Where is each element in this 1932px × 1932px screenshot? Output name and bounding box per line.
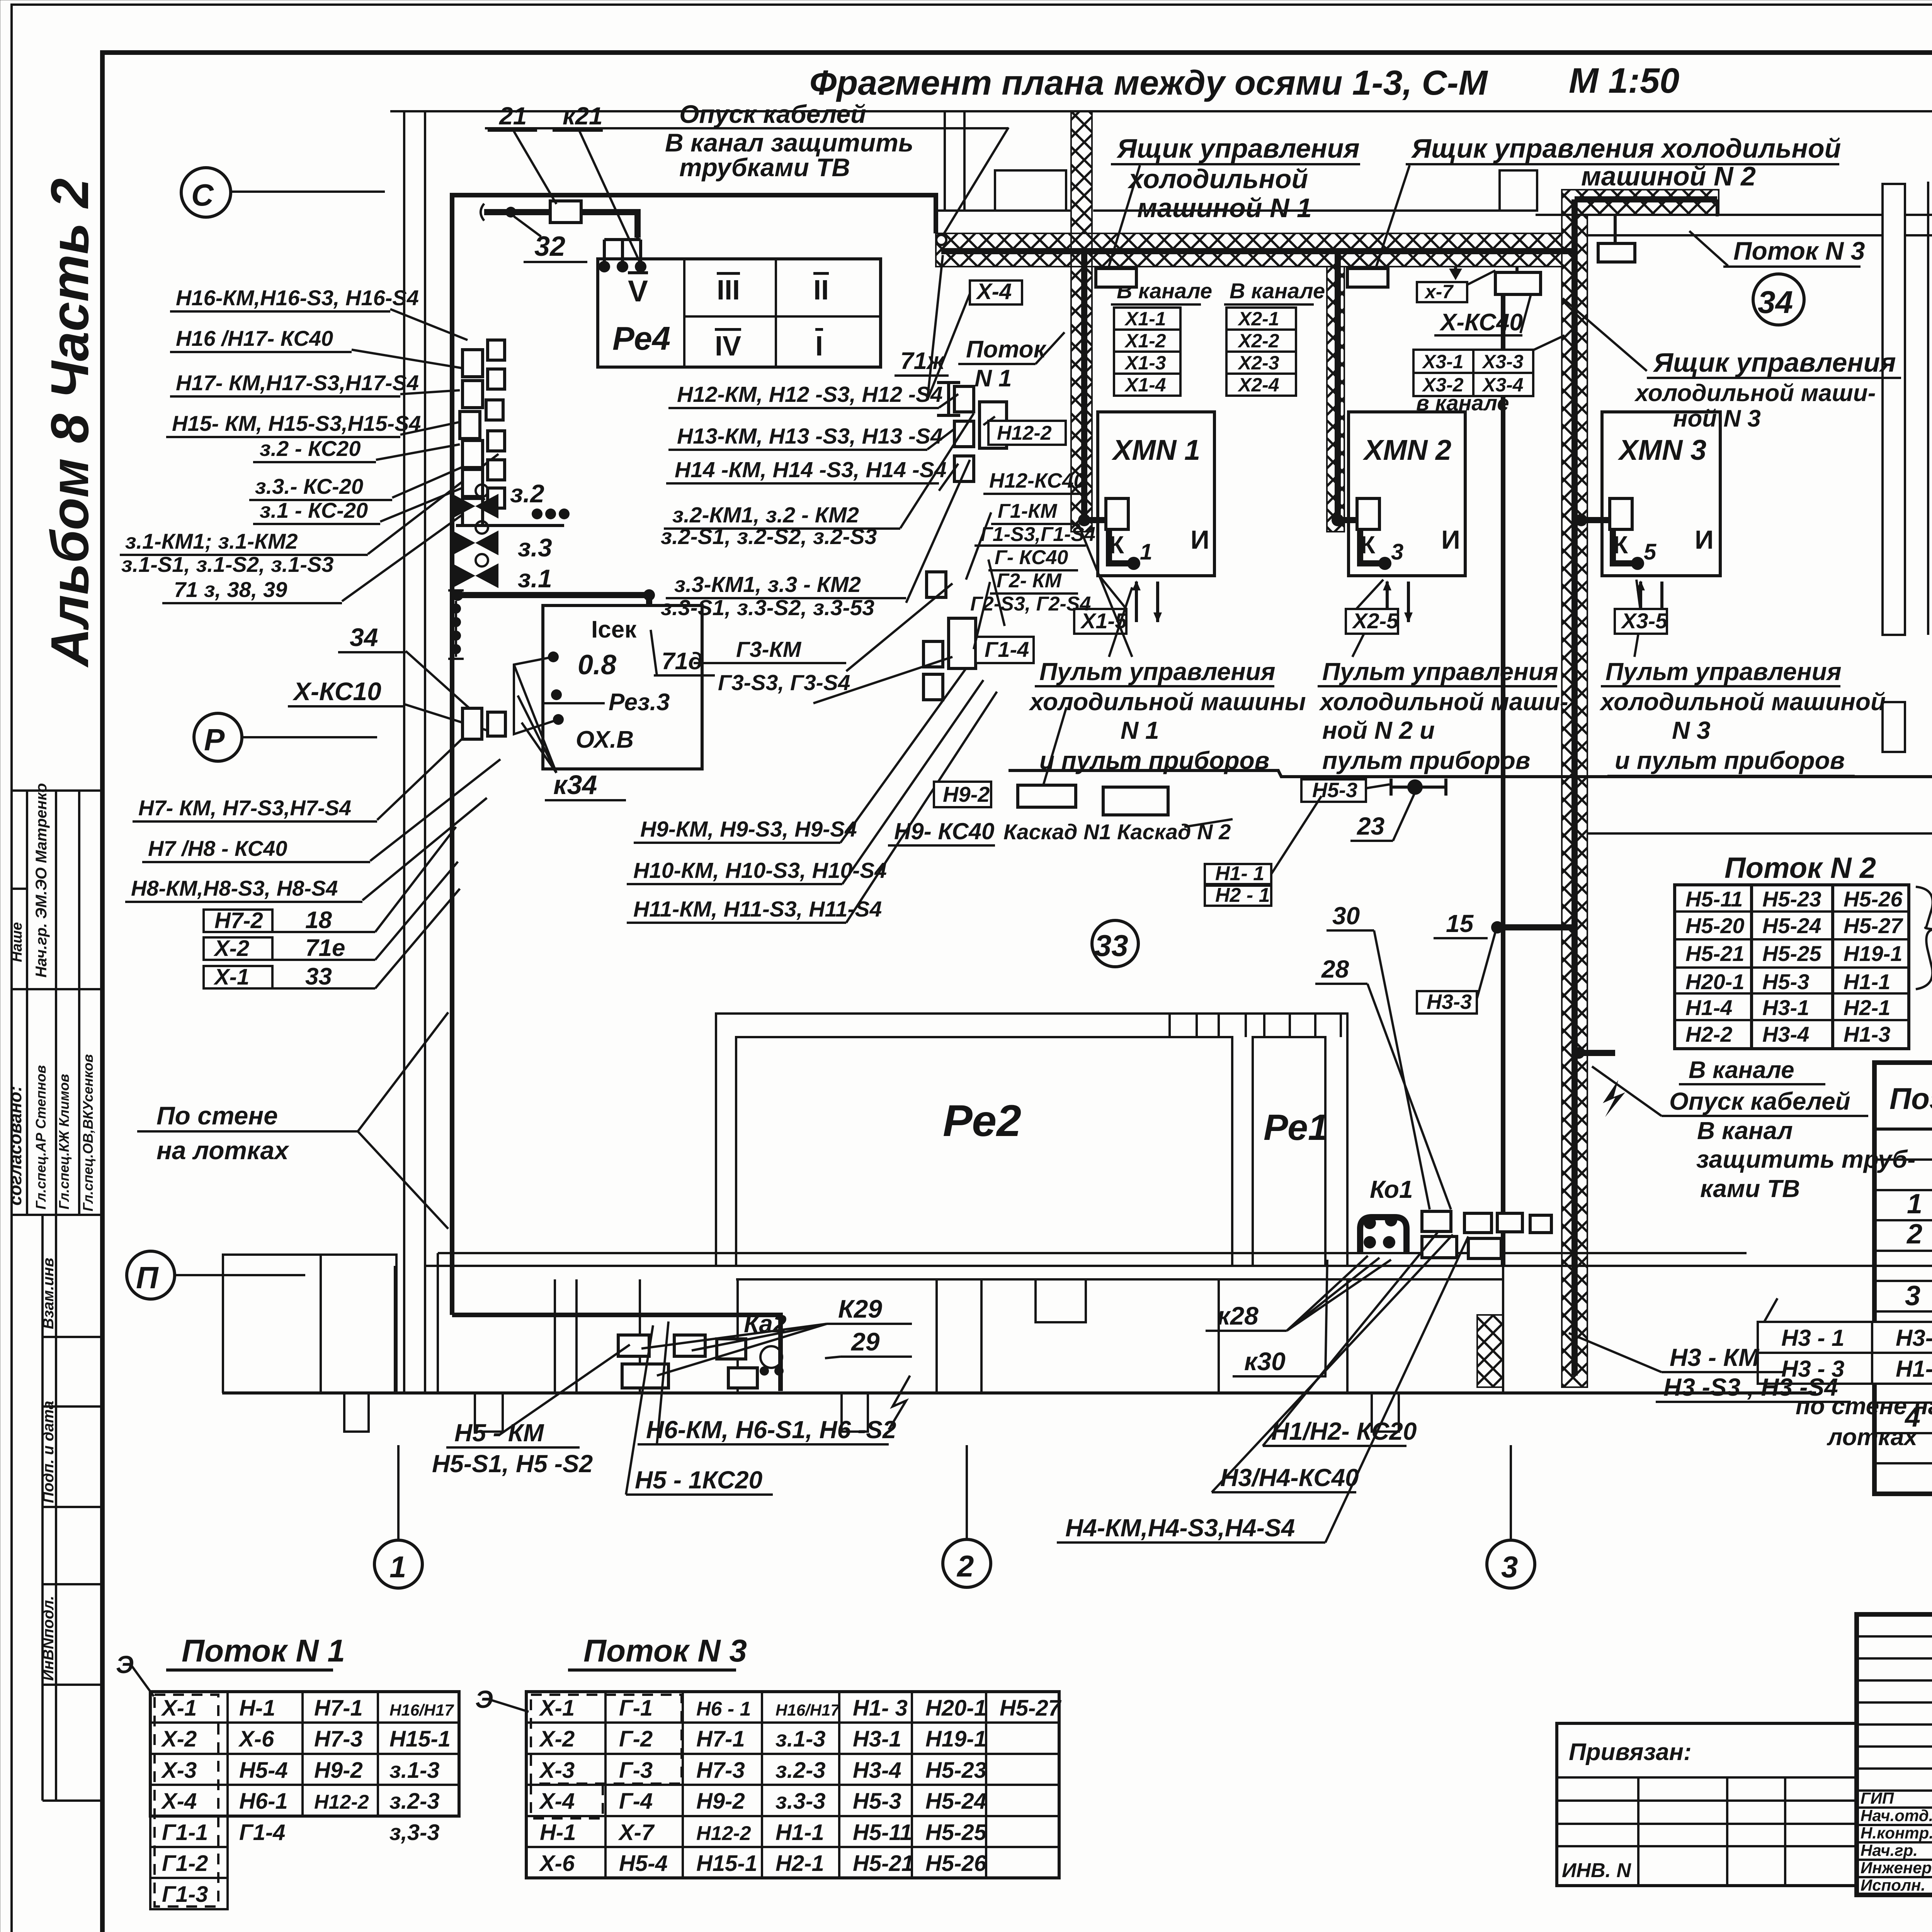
- svg-text:трубками ТВ: трубками ТВ: [679, 153, 850, 182]
- svg-text:Н5-4: Н5-4: [619, 1851, 668, 1876]
- svg-text:30: 30: [1332, 902, 1360, 930]
- svg-text:Н-1: Н-1: [239, 1696, 275, 1721]
- svg-text:Рез.3: Рез.3: [609, 689, 670, 716]
- cable: top-left room: [484, 212, 638, 238]
- svg-text:к34: к34: [553, 770, 597, 800]
- hatched wall V2: [1327, 267, 1344, 532]
- svg-text:Н11-КМ, Н11-S3, Н11-S4: Н11-КМ, Н11-S3, Н11-S4: [633, 897, 882, 922]
- svg-text:33: 33: [305, 963, 332, 990]
- room number 33: [1092, 920, 1138, 967]
- svg-text:Н1-1: Н1-1: [776, 1820, 824, 1845]
- svg-text:Н5-3: Н5-3: [853, 1789, 901, 1814]
- svg-text:Альбом 8 Часть 2: Альбом 8 Часть 2: [40, 178, 100, 668]
- svg-text:Н5 - КМ: Н5 - КМ: [454, 1419, 544, 1447]
- svg-text:ХМN 1: ХМN 1: [1111, 434, 1200, 466]
- svg-text:По стене: По стене: [156, 1101, 278, 1130]
- svg-text:Г1-3: Г1-3: [162, 1882, 208, 1907]
- svg-text:Н5 - 1КС20: Н5 - 1КС20: [635, 1466, 762, 1494]
- title block: [1857, 1614, 1932, 1895]
- svg-text:Х2-5: Х2-5: [1352, 609, 1399, 633]
- svg-text:лотках: лотках: [1827, 1424, 1918, 1451]
- svg-text:1: 1: [1140, 539, 1152, 565]
- svg-text:Н9- КС40: Н9- КС40: [894, 818, 995, 844]
- svg-text:Ящик управления холодильной: Ящик управления холодильной: [1411, 133, 1841, 163]
- svg-text:з.1-3: з.1-3: [776, 1726, 826, 1752]
- svg-text:Н6-1: Н6-1: [239, 1789, 288, 1814]
- svg-text:Пульт управления: Пульт управления: [1605, 658, 1842, 685]
- svg-text:К: К: [1613, 531, 1628, 559]
- left margin stamp tables: [5, 783, 102, 1801]
- XM internals: [1074, 498, 1714, 634]
- svg-text:Пульт управления: Пульт управления: [1322, 658, 1558, 685]
- svg-text:з.3: з.3: [518, 533, 552, 562]
- svg-text:холодильной маши-: холодильной маши-: [1319, 688, 1568, 716]
- svg-text:Iсек: Iсек: [591, 616, 637, 643]
- svg-text:Х-3: Х-3: [539, 1758, 575, 1783]
- svg-text:Н5-23: Н5-23: [925, 1758, 986, 1783]
- Potok N2 table: [1592, 852, 1932, 1202]
- svg-text:Н16-КМ,Н16-S3, Н16-S4: Н16-КМ,Н16-S3, Н16-S4: [176, 286, 419, 310]
- svg-text:Г1-1: Г1-1: [162, 1820, 208, 1845]
- svg-text:Пульт управления: Пульт управления: [1039, 658, 1276, 685]
- svg-text:Х3-1: Х3-1: [1422, 351, 1464, 372]
- svg-text:холодильной: холодильной: [1127, 164, 1308, 194]
- svg-text:Х-1: Х-1: [161, 1696, 197, 1721]
- room XM N1: [1098, 412, 1214, 576]
- svg-text:И: И: [1190, 525, 1209, 554]
- svg-text:Г3-S3, Г3-S4: Г3-S3, Г3-S4: [718, 670, 850, 695]
- svg-text:N 3: N 3: [1672, 716, 1711, 744]
- wall: bottom-left block: [223, 1255, 396, 1393]
- svg-text:Н7 /Н8 - КС40: Н7 /Н8 - КС40: [148, 836, 287, 861]
- H3 table: [1758, 1322, 1932, 1451]
- svg-text:ХМN 3: ХМN 3: [1617, 434, 1706, 466]
- svg-text:34: 34: [1758, 285, 1793, 320]
- svg-text:Н3/Н4-КС40: Н3/Н4-КС40: [1220, 1464, 1359, 1492]
- svg-text:Поток N 1: Поток N 1: [182, 1633, 345, 1668]
- svg-text:Н1- 3: Н1- 3: [853, 1696, 908, 1721]
- svg-text:Нач.гр.: Нач.гр.: [1861, 1841, 1918, 1859]
- svg-text:Х-1: Х-1: [213, 964, 249, 990]
- svg-text:Каскад N1: Каскад N1: [1003, 820, 1111, 844]
- svg-text:1: 1: [389, 1550, 406, 1584]
- axis C: [181, 168, 231, 217]
- junction cluster Ka2: [618, 1335, 649, 1356]
- svg-text:Н5-11: Н5-11: [1685, 887, 1743, 911]
- svg-text:Н3-3: Н3-3: [1427, 990, 1472, 1014]
- Pe4 box: [598, 259, 881, 367]
- svg-text:Г1-4: Г1-4: [985, 637, 1029, 662]
- svg-text:Х-2: Х-2: [213, 936, 249, 961]
- svg-text:И: И: [1441, 525, 1460, 554]
- svg-text:Г2-S3, Г2-S4: Г2-S3, Г2-S4: [970, 593, 1091, 615]
- svg-text:Н5-26: Н5-26: [1844, 887, 1903, 911]
- svg-text:Н1- 1: Н1- 1: [1215, 862, 1264, 885]
- svg-text:Н7-1: Н7-1: [314, 1696, 363, 1721]
- svg-text:1: 1: [1907, 1189, 1922, 1219]
- svg-text:Н5-23: Н5-23: [1762, 887, 1821, 911]
- svg-text:Н16 /Н17- КС40: Н16 /Н17- КС40: [176, 326, 333, 350]
- X3 cable list: [1413, 350, 1473, 373]
- svg-text:Н4-КМ,Н4-S3,Н4-S4: Н4-КМ,Н4-S3,Н4-S4: [1065, 1514, 1295, 1542]
- svg-text:Н20-1: Н20-1: [925, 1696, 986, 1721]
- svg-text:Н6-КМ, Н6-S1, Н6 -S2: Н6-КМ, Н6-S1, Н6 -S2: [646, 1416, 896, 1444]
- svg-text:Ящик управления: Ящик управления: [1653, 347, 1896, 378]
- wall: bottom rooms: [438, 1252, 1747, 1254]
- svg-text:з.1-S1, з.1-S2, з.1-S3: з.1-S1, з.1-S2, з.1-S3: [121, 552, 334, 577]
- svg-text:машиной N 1: машиной N 1: [1137, 193, 1312, 223]
- hatched wall bottom: [1477, 1315, 1503, 1387]
- svg-text:Н12-2: Н12-2: [997, 422, 1052, 444]
- svg-text:Поток N 3: Поток N 3: [583, 1633, 747, 1668]
- svg-text:II: II: [813, 275, 829, 306]
- svg-text:к28: к28: [1217, 1301, 1259, 1330]
- svg-text:Взам.инв: Взам.инв: [40, 1258, 57, 1329]
- svg-text:Инженер: Инженер: [1861, 1859, 1932, 1877]
- svg-text:3: 3: [1391, 539, 1403, 565]
- svg-text:Г3-КМ: Г3-КМ: [736, 637, 802, 662]
- hatched wall B: [1562, 190, 1719, 215]
- svg-text:Х-2: Х-2: [161, 1726, 197, 1752]
- privyazan box: [1557, 1723, 1857, 1886]
- svg-text:П: П: [136, 1260, 159, 1295]
- svg-text:Н7-3: Н7-3: [696, 1758, 745, 1783]
- svg-text:Н10-КМ, Н10-S3, Н10-S4: Н10-КМ, Н10-S3, Н10-S4: [633, 858, 887, 883]
- svg-text:V: V: [628, 274, 648, 308]
- svg-text:Н13-КМ, Н13 -S3, Н13 -S4: Н13-КМ, Н13 -S3, Н13 -S4: [677, 424, 943, 449]
- potok N3 table: [475, 1633, 1062, 1878]
- svg-text:Нач.гр. ЭМ.ЭО Матренко: Нач.гр. ЭМ.ЭО Матренко: [33, 783, 50, 978]
- svg-text:и пульт приборов: и пульт приборов: [1039, 747, 1269, 774]
- svg-text:Х1-3: Х1-3: [1124, 352, 1166, 374]
- svg-text:Н5-20: Н5-20: [1685, 913, 1745, 938]
- svg-text:Поток: Поток: [966, 336, 1047, 363]
- svg-text:Н2-2: Н2-2: [1685, 1022, 1732, 1046]
- svg-text:Х-6: Х-6: [539, 1851, 575, 1876]
- svg-text:пульт приборов: пульт приборов: [1322, 747, 1530, 774]
- svg-text:Н9-2: Н9-2: [943, 782, 990, 806]
- svg-text:N 1: N 1: [1121, 716, 1159, 744]
- svg-text:Н1-3: Н1-3: [1844, 1022, 1890, 1046]
- svg-text:71 з, 38, 39: 71 з, 38, 39: [174, 577, 287, 602]
- svg-text:холодильной маши-: холодильной маши-: [1634, 380, 1876, 406]
- svg-text:з.1-КМ1; з.1-КМ2: з.1-КМ1; з.1-КМ2: [125, 529, 298, 553]
- svg-text:ГИП: ГИП: [1861, 1789, 1894, 1807]
- svg-text:Фрагмент плана между осями 1-: Фрагмент плана между осями 1-3, С-М: [810, 64, 1488, 102]
- svg-text:Г-4: Г-4: [619, 1789, 653, 1814]
- svg-text:холодильной машиной: холодильной машиной: [1599, 688, 1886, 716]
- svg-text:В канале: В канале: [1230, 279, 1325, 303]
- svg-text:Н5-27: Н5-27: [1844, 913, 1903, 938]
- svg-text:И: И: [1695, 525, 1714, 554]
- svg-text:Н1-4: Н1-4: [1685, 995, 1732, 1020]
- svg-text:В канал: В канал: [1697, 1117, 1793, 1145]
- svg-text:Гл.спец.ОВ,ВКУсенков: Гл.спец.ОВ,ВКУсенков: [80, 1054, 96, 1211]
- pillar: [1883, 702, 1905, 752]
- svg-text:з.1-3: з.1-3: [389, 1758, 440, 1783]
- svg-text:К29: К29: [838, 1294, 882, 1323]
- svg-text:Н17- КМ,Н17-S3,Н17-S4: Н17- КМ,Н17-S3,Н17-S4: [176, 371, 419, 395]
- svg-text:Н12-2: Н12-2: [314, 1791, 369, 1813]
- svg-text:Х-4: Х-4: [161, 1789, 197, 1814]
- wall: left double: [403, 111, 405, 1393]
- svg-text:С: С: [191, 178, 214, 212]
- svg-text:в канале: в канале: [1416, 391, 1509, 415]
- svg-text:согласовано:: согласовано:: [5, 1086, 25, 1206]
- svg-text:Н8-КМ,Н8-S3, Н8-S4: Н8-КМ,Н8-S3, Н8-S4: [131, 876, 338, 900]
- svg-text:23: 23: [1357, 812, 1384, 840]
- svg-text:Н3 - КМ: Н3 - КМ: [1670, 1344, 1760, 1371]
- svg-text:Н15- КМ, Н15-S3,Н15-S4: Н15- КМ, Н15-S3,Н15-S4: [172, 411, 421, 435]
- svg-text:Н7-2: Н7-2: [214, 908, 263, 933]
- svg-text:Н5-21: Н5-21: [1685, 941, 1745, 966]
- svg-text:Н9-КМ, Н9-S3, Н9-S4: Н9-КМ, Н9-S3, Н9-S4: [640, 817, 857, 842]
- svg-text:Н19-1: Н19-1: [925, 1726, 986, 1752]
- axis 2: [943, 1539, 991, 1587]
- axis 3: [1487, 1540, 1535, 1588]
- svg-text:з.1: з.1: [518, 564, 552, 593]
- svg-text:Исполн.: Исполн.: [1861, 1876, 1925, 1894]
- svg-text:Н12-КС40: Н12-КС40: [989, 469, 1085, 492]
- svg-text:Н5-27: Н5-27: [1000, 1696, 1062, 1721]
- svg-text:Н5-24: Н5-24: [925, 1789, 986, 1814]
- svg-text:Х-3: Х-3: [161, 1758, 197, 1783]
- svg-text:Ре1: Ре1: [1264, 1107, 1328, 1148]
- svg-text:Х1-2: Х1-2: [1124, 330, 1166, 352]
- parts list table: [1874, 1063, 1932, 1496]
- svg-text:Н5-11: Н5-11: [853, 1820, 912, 1845]
- svg-text:Н6 - 1: Н6 - 1: [696, 1698, 751, 1720]
- svg-text:Н9-2: Н9-2: [696, 1789, 745, 1814]
- svg-text:холодильной машины: холодильной машины: [1029, 688, 1306, 716]
- lower room wall: [1009, 770, 1932, 777]
- room number 34: [1753, 274, 1804, 325]
- cable: main run in wall A: [941, 248, 1575, 254]
- svg-text:Поток N 3: Поток N 3: [1733, 236, 1865, 265]
- svg-text:к21: к21: [563, 102, 603, 130]
- svg-text:К: К: [1109, 531, 1124, 559]
- svg-text:71е: 71е: [305, 935, 345, 961]
- room XM N2: [1349, 412, 1465, 576]
- svg-text:Х1-1: Х1-1: [1124, 308, 1166, 330]
- hatched wall V3 long: [1562, 215, 1587, 1387]
- svg-text:Гл.спец.КЖ Климов: Гл.спец.КЖ Климов: [56, 1074, 72, 1209]
- svg-text:В канал защитить: В канал защитить: [665, 128, 913, 157]
- wall lines corridor: [936, 209, 1071, 212]
- junction boxes under wall A: [1096, 269, 1136, 287]
- svg-text:Н2-1: Н2-1: [776, 1851, 824, 1876]
- hatched wall A: [936, 233, 1562, 267]
- svg-text:Нач.отд.: Нач.отд.: [1861, 1806, 1932, 1825]
- svg-text:0.8: 0.8: [578, 650, 616, 680]
- svg-text:34: 34: [350, 623, 378, 651]
- svg-text:Привязан:: Привязан:: [1569, 1739, 1692, 1765]
- svg-text:з.2-3: з.2-3: [389, 1789, 440, 1814]
- svg-text:Н20-1: Н20-1: [1685, 969, 1745, 994]
- svg-text:к30: к30: [1244, 1347, 1286, 1376]
- svg-text:Г- КС40: Г- КС40: [995, 546, 1068, 569]
- svg-text:машиной N 2: машиной N 2: [1581, 161, 1756, 191]
- svg-text:з.1 - КС-20: з.1 - КС-20: [260, 498, 368, 522]
- svg-text:Н15-1: Н15-1: [389, 1726, 451, 1752]
- terminal boxes right wall of 33: [954, 386, 974, 412]
- svg-text:М 1:50: М 1:50: [1569, 61, 1679, 100]
- svg-text:Н7-3: Н7-3: [314, 1726, 363, 1752]
- svg-text:Х2-1: Х2-1: [1237, 308, 1279, 330]
- svg-text:Г1-КМ: Г1-КМ: [998, 500, 1058, 522]
- svg-text:Н7- КМ, Н7-S3,Н7-S4: Н7- КМ, Н7-S3,Н7-S4: [138, 796, 351, 820]
- svg-text:Н5-3: Н5-3: [1762, 969, 1809, 994]
- svg-text:Н3 -S3 , Н3 -S4: Н3 -S3 , Н3 -S4: [1663, 1373, 1838, 1401]
- svg-text:Х3-3: Х3-3: [1481, 351, 1524, 372]
- hatched wall V1: [1071, 111, 1092, 532]
- svg-text:Н3-4: Н3-4: [1896, 1325, 1932, 1351]
- svg-text:18: 18: [305, 907, 332, 934]
- svg-text:Н5-24: Н5-24: [1762, 913, 1821, 938]
- svg-text:з.2: з.2: [510, 479, 544, 508]
- svg-text:III: III: [717, 275, 740, 306]
- svg-text:Н12-КМ, Н12 -S3, Н12 -S4: Н12-КМ, Н12 -S3, Н12 -S4: [677, 382, 943, 407]
- svg-text:Н5-25: Н5-25: [1762, 941, 1821, 966]
- wall: corridor top: [390, 110, 1932, 112]
- axis P: [194, 713, 242, 761]
- terminal boxes left wall: [463, 350, 483, 377]
- svg-text:Ре4: Ре4: [612, 320, 670, 357]
- svg-text:I: I: [815, 331, 823, 362]
- svg-text:Н7-1: Н7-1: [696, 1726, 745, 1752]
- svg-text:з.2-S1, з.2-S2, з.2-S3: з.2-S1, з.2-S2, з.2-S3: [661, 524, 877, 549]
- svg-text:Н14 -КМ, Н14 -S3, Н14 -S4: Н14 -КМ, Н14 -S3, Н14 -S4: [675, 457, 946, 482]
- svg-text:з.3-КМ1, з.3 - КМ2: з.3-КМ1, з.3 - КМ2: [674, 572, 861, 597]
- svg-text:ной N 2 и: ной N 2 и: [1322, 716, 1435, 744]
- svg-text:защитить труб-: защитить труб-: [1696, 1145, 1916, 1173]
- svg-text:Х-4: Х-4: [539, 1789, 575, 1814]
- svg-text:Г-2: Г-2: [619, 1726, 653, 1752]
- svg-text:Гл.спец.АР Степнов: Гл.спец.АР Степнов: [33, 1065, 49, 1209]
- svg-text:Опуск кабелей: Опуск кабелей: [679, 100, 866, 128]
- svg-text:Поток N 2: Поток N 2: [1725, 852, 1876, 884]
- pult labels: [1029, 587, 1886, 776]
- svg-text:Н3-4: Н3-4: [853, 1758, 901, 1783]
- svg-text:Н19-1: Н19-1: [1844, 941, 1903, 966]
- valves: [452, 494, 498, 519]
- svg-text:Х-1: Х-1: [539, 1696, 575, 1721]
- svg-text:х-7: х-7: [1424, 281, 1454, 303]
- svg-text:Н16/Н17: Н16/Н17: [389, 1701, 454, 1719]
- svg-text:ной N 3: ной N 3: [1673, 405, 1761, 432]
- svg-text:Х-2: Х-2: [539, 1726, 575, 1752]
- svg-text:ками ТВ: ками ТВ: [1700, 1175, 1800, 1202]
- svg-text:Н3 - 1: Н3 - 1: [1781, 1325, 1844, 1351]
- cable: room33 lower horizontal: [456, 592, 649, 598]
- svg-text:Н5-26: Н5-26: [925, 1851, 987, 1876]
- svg-text:К: К: [1360, 531, 1376, 559]
- svg-text:Н9-2: Н9-2: [314, 1758, 363, 1783]
- svg-text:Х2-3: Х2-3: [1237, 352, 1279, 374]
- svg-text:Н5-25: Н5-25: [925, 1820, 987, 1845]
- svg-text:з.2-КМ1, з.2 - КМ2: з.2-КМ1, з.2 - КМ2: [672, 503, 859, 527]
- svg-text:з.2-3: з.2-3: [776, 1758, 826, 1783]
- svg-text:на лотках: на лотках: [156, 1136, 289, 1165]
- cable: run in wall B: [1575, 196, 1717, 202]
- svg-text:28: 28: [1321, 955, 1349, 983]
- svg-text:ХМN 2: ХМN 2: [1362, 434, 1451, 466]
- svg-text:ИнВNподл.: ИнВNподл.: [40, 1596, 57, 1681]
- Pe2/Pe1 block: [716, 1014, 1347, 1266]
- svg-text:Ящик управления: Ящик управления: [1116, 133, 1360, 163]
- pillar: [1883, 184, 1905, 635]
- svg-text:Н2 - 1: Н2 - 1: [1215, 884, 1270, 906]
- svg-text:Г-1: Г-1: [619, 1696, 653, 1721]
- wall: room 33 boundary: [452, 195, 936, 1315]
- cable: vertical run in wall V3: [1571, 199, 1578, 1376]
- Isek box: [543, 605, 702, 769]
- svg-text:Г1-4: Г1-4: [239, 1820, 285, 1845]
- svg-text:Н15-1: Н15-1: [696, 1851, 757, 1876]
- svg-text:Н1-3: Н1-3: [1896, 1356, 1932, 1382]
- svg-text:Н3-1: Н3-1: [1762, 995, 1809, 1020]
- svg-text:Х2-4: Х2-4: [1237, 374, 1279, 396]
- svg-text:Н5-21: Н5-21: [853, 1851, 914, 1876]
- svg-text:Г-3: Г-3: [619, 1758, 653, 1783]
- svg-text:Подп. и дата: Подп. и дата: [40, 1401, 57, 1503]
- svg-text:N 1: N 1: [975, 365, 1012, 392]
- svg-text:Н5-S1, Н5 -S2: Н5-S1, Н5 -S2: [432, 1450, 593, 1478]
- svg-text:В канале: В канале: [1689, 1057, 1794, 1083]
- svg-text:5: 5: [1644, 539, 1656, 565]
- svg-text:Э: Э: [116, 1651, 134, 1679]
- svg-text:Опуск кабелей: Опуск кабелей: [1669, 1087, 1850, 1115]
- svg-text:2: 2: [1906, 1219, 1922, 1250]
- svg-text:Г1-2: Г1-2: [162, 1851, 208, 1876]
- svg-text:Х2-2: Х2-2: [1237, 330, 1279, 352]
- svg-text:Х-7: Х-7: [618, 1820, 655, 1845]
- cable: to K dot room34: [1501, 924, 1575, 930]
- leaders left: [390, 309, 468, 340]
- svg-text:Наше: Наше: [9, 922, 25, 963]
- svg-text:3: 3: [1501, 1550, 1518, 1584]
- svg-text:Х3-5: Х3-5: [1621, 609, 1668, 633]
- svg-text:Н12-2: Н12-2: [696, 1822, 751, 1845]
- svg-text:Х-4: Х-4: [976, 279, 1012, 304]
- svg-text:Х1-4: Х1-4: [1124, 374, 1166, 396]
- svg-text:Х-КС40: Х-КС40: [1439, 309, 1523, 336]
- svg-text:з.2 - КС20: з.2 - КС20: [260, 436, 361, 461]
- svg-text:Н2-1: Н2-1: [1844, 995, 1890, 1020]
- svg-text:з.3-S1, з.3-S2, з.3-53: з.3-S1, з.3-S2, з.3-53: [661, 595, 874, 620]
- svg-text:Н3-4: Н3-4: [1762, 1022, 1809, 1046]
- axis Pi: [127, 1251, 175, 1299]
- svg-text:Н16/Н17: Н16/Н17: [776, 1701, 840, 1719]
- svg-text:29: 29: [850, 1327, 880, 1356]
- svg-text:ОХ.В: ОХ.В: [576, 726, 634, 753]
- svg-text:Х-КС10: Х-КС10: [292, 677, 381, 706]
- svg-text:15: 15: [1446, 910, 1474, 937]
- svg-text:Н3-1: Н3-1: [853, 1726, 901, 1752]
- svg-text:Н5-4: Н5-4: [239, 1758, 288, 1783]
- svg-text:Н-1: Н-1: [540, 1820, 576, 1845]
- svg-text:Ре2: Ре2: [943, 1096, 1021, 1146]
- svg-text:з,3-3: з,3-3: [389, 1820, 440, 1845]
- junction K34: [463, 708, 482, 739]
- svg-text:Э: Э: [475, 1685, 493, 1713]
- svg-text:Р: Р: [204, 723, 225, 757]
- svg-text:71д: 71д: [662, 648, 703, 675]
- svg-text:3: 3: [1905, 1281, 1920, 1311]
- svg-text:33: 33: [1095, 929, 1128, 963]
- svg-text:Х-6: Х-6: [238, 1726, 274, 1752]
- wall: room34 bottom: [1587, 832, 1932, 835]
